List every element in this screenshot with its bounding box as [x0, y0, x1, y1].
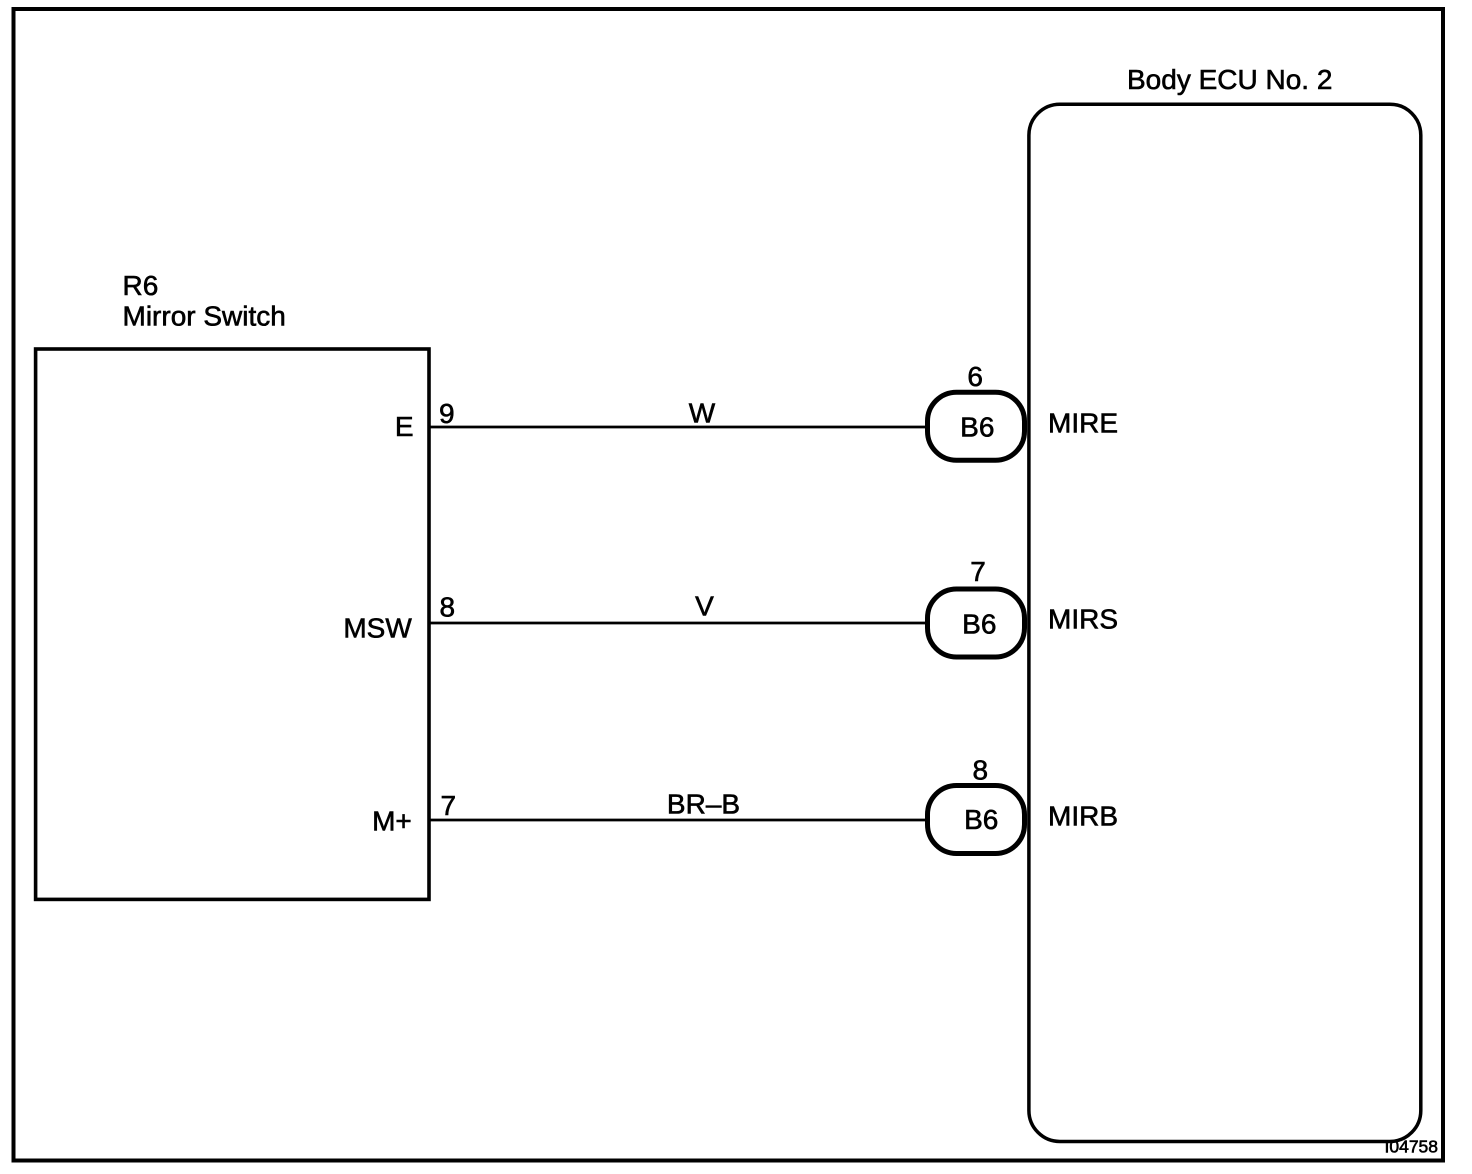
svg-text:B6: B6 [960, 412, 994, 443]
svg-text:MSW: MSW [343, 613, 412, 644]
svg-text:I04758: I04758 [1385, 1137, 1439, 1157]
svg-text:8: 8 [440, 592, 456, 623]
wire BR-B (R6 pin 7 to B6 pin 8) [429, 819, 935, 822]
svg-text:MIRB: MIRB [1048, 801, 1118, 832]
connector B6 (pin 8, MIRB) [928, 786, 1025, 854]
svg-text:MIRS: MIRS [1048, 604, 1118, 635]
svg-text:9: 9 [439, 398, 455, 429]
svg-text:BR–B: BR–B [667, 789, 740, 820]
svg-text:R6: R6 [123, 270, 159, 301]
svg-text:E: E [395, 411, 414, 442]
svg-text:6: 6 [967, 361, 983, 392]
svg-text:B6: B6 [962, 609, 996, 640]
connector B6 (pin 7, MIRS) [928, 589, 1025, 657]
svg-text:W: W [689, 398, 716, 429]
svg-text:MIRE: MIRE [1048, 408, 1118, 439]
svg-text:Body ECU No. 2: Body ECU No. 2 [1127, 64, 1332, 95]
svg-text:8: 8 [973, 755, 989, 786]
svg-text:B6: B6 [964, 804, 998, 835]
Body ECU No. 2 (component box) [1029, 104, 1421, 1141]
svg-text:V: V [695, 591, 714, 622]
connector B6 (pin 6, MIRE) [928, 392, 1025, 460]
svg-text:M+: M+ [372, 806, 412, 837]
svg-text:7: 7 [970, 556, 986, 587]
wire V (R6 pin 8 to B6 pin 7) [429, 622, 935, 625]
svg-text:7: 7 [441, 790, 457, 821]
wire W (R6 pin 9 to B6 pin 6) [429, 426, 935, 429]
mirror switch R6 (component box) [36, 349, 429, 899]
svg-text:Mirror Switch: Mirror Switch [123, 301, 286, 332]
